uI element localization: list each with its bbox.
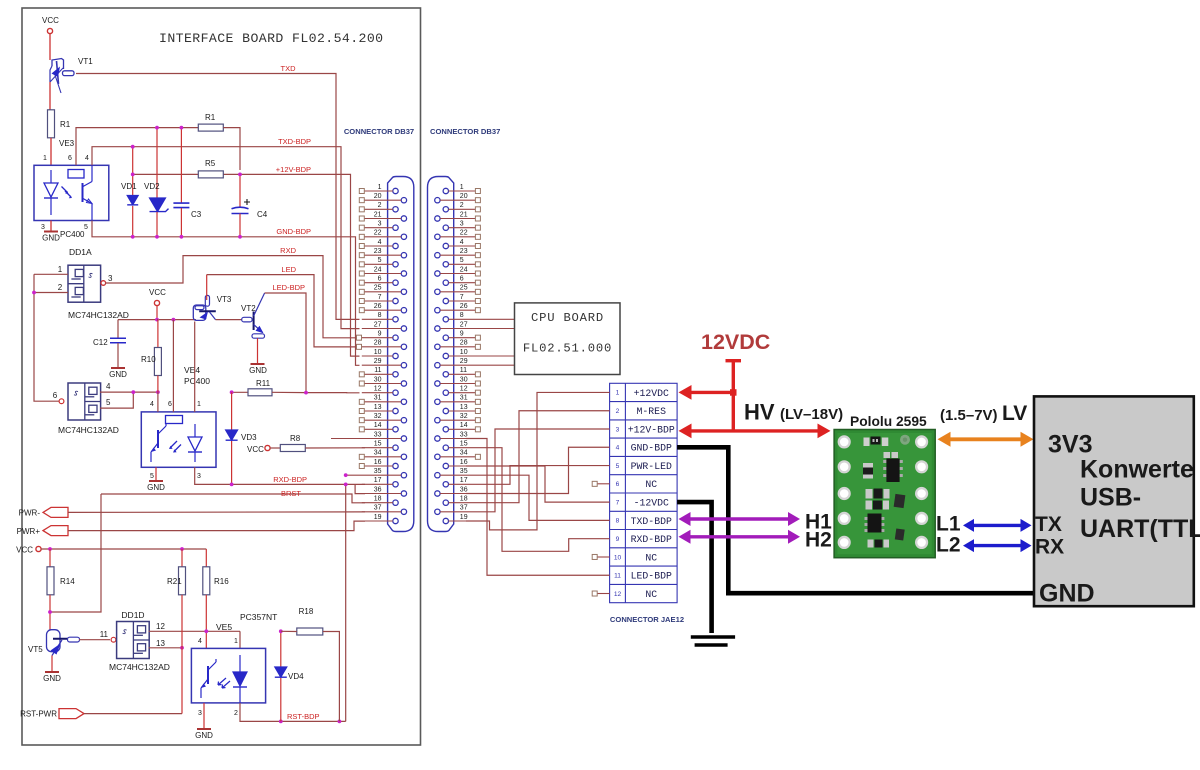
label TXD-BDP xyxy=(278,137,311,146)
svg-text:15: 15 xyxy=(374,440,382,447)
svg-text:19: 19 xyxy=(374,514,382,521)
svg-text:3: 3 xyxy=(616,426,620,433)
junction xyxy=(131,173,135,177)
svg-text:9: 9 xyxy=(616,536,620,543)
svg-text:11: 11 xyxy=(374,367,381,374)
wire VCC to VT1 xyxy=(49,33,51,60)
svg-text:30: 30 xyxy=(374,376,382,383)
svg-text:22: 22 xyxy=(460,230,468,237)
svg-text:R21: R21 xyxy=(167,577,182,586)
svg-text:R16: R16 xyxy=(214,577,229,586)
svg-text:H2: H2 xyxy=(805,529,832,552)
svg-text:PC400: PC400 xyxy=(60,230,85,239)
svg-text:13: 13 xyxy=(460,404,468,411)
svg-text:USB-: USB- xyxy=(1080,484,1141,512)
resistor R10 xyxy=(141,320,161,393)
pin 12 right DB37 xyxy=(443,385,480,395)
svg-text:M-RES: M-RES xyxy=(637,406,667,417)
wire BRST net xyxy=(101,494,365,503)
junction xyxy=(131,390,135,394)
svg-text:35: 35 xyxy=(374,468,382,475)
label UART(TTL xyxy=(1080,515,1200,543)
label DD1D xyxy=(121,610,144,620)
label CONNECTOR DB37 (left) xyxy=(344,127,414,136)
pin 22 left DB37 xyxy=(359,230,406,240)
svg-text:6: 6 xyxy=(460,275,464,282)
node VCC (bottom) xyxy=(16,546,41,555)
svg-text:32: 32 xyxy=(460,413,468,420)
svg-text:36: 36 xyxy=(460,486,468,493)
svg-text:11: 11 xyxy=(100,630,109,639)
svg-text:GND: GND xyxy=(195,731,213,740)
svg-text:1: 1 xyxy=(58,265,63,274)
wire JAE12 pin 3 to DB37 pin 37 xyxy=(466,429,610,512)
wire JAE12 pin 4 to DB37 pin 36 xyxy=(466,447,610,493)
svg-text:INTERFACE BOARD FL02.54.200: INTERFACE BOARD FL02.54.200 xyxy=(159,31,383,46)
resistor R1 (horizontal top) xyxy=(198,113,223,131)
svg-text:11: 11 xyxy=(460,367,467,374)
svg-text:PWR+: PWR+ xyxy=(17,527,41,536)
label GND xyxy=(1039,580,1095,608)
svg-text:1: 1 xyxy=(378,184,382,191)
pin 2 left DB37 xyxy=(359,202,398,212)
pin 6 DD1B xyxy=(53,391,58,400)
svg-text:3: 3 xyxy=(108,274,113,283)
wire 12VDC supply xyxy=(726,361,742,431)
resistor R14 xyxy=(47,549,75,630)
svg-text:18: 18 xyxy=(374,495,382,502)
pin 3 VE4 xyxy=(197,473,201,480)
svg-text:-12VDC: -12VDC xyxy=(634,498,669,509)
svg-text:8: 8 xyxy=(378,312,382,319)
wire VE4 pin6 to VCC rail xyxy=(172,320,174,412)
wire JAE12 pin 11 to DB37 pin 33 xyxy=(466,439,610,576)
pin 14 left DB37 xyxy=(359,422,398,432)
pin 13 DD1D xyxy=(156,639,165,648)
transistor VT3 xyxy=(193,295,232,320)
label BRST xyxy=(281,489,301,498)
svg-text:VD2: VD2 xyxy=(144,182,160,191)
label (1.5-7V) xyxy=(940,407,998,424)
wire pin12 line xyxy=(149,630,240,632)
svg-text:MC74HC132AD: MC74HC132AD xyxy=(58,425,119,435)
svg-text:16: 16 xyxy=(374,459,382,466)
svg-text:R1: R1 xyxy=(60,120,71,129)
diode VD2 (zener) xyxy=(144,128,169,237)
svg-text:14: 14 xyxy=(374,422,382,429)
svg-text:37: 37 xyxy=(374,505,382,512)
svg-text:4: 4 xyxy=(106,382,111,391)
pin 16 left DB37 xyxy=(359,459,398,469)
pin 20 left DB37 xyxy=(359,193,406,203)
wire R8 to row15 xyxy=(305,447,365,449)
svg-text:33: 33 xyxy=(374,431,382,438)
svg-text:3: 3 xyxy=(41,224,45,231)
svg-text:+12VDC: +12VDC xyxy=(634,388,669,399)
svg-text:R18: R18 xyxy=(299,607,314,616)
pin 11 DD1D xyxy=(100,630,109,639)
pin 24 left DB37 xyxy=(359,266,406,276)
wire RXD net xyxy=(105,256,357,338)
svg-text:5: 5 xyxy=(106,398,111,407)
wire +12V-BDP net xyxy=(133,173,199,175)
pin 9 JAE12 RXD-BDP xyxy=(616,534,672,545)
arrow HV line to Pololu xyxy=(679,424,831,439)
diode VD4 xyxy=(275,631,304,721)
wire JAE12 pin 7 to DB37 pin 16 xyxy=(466,466,610,502)
pin 21 right DB37 xyxy=(435,211,481,221)
label VE5 xyxy=(216,622,232,632)
wire PWR+ to row19 xyxy=(68,521,365,531)
svg-text:12: 12 xyxy=(156,622,165,631)
label TXD xyxy=(281,64,297,73)
pin 37 right DB37 xyxy=(435,505,468,515)
svg-text:VE4: VE4 xyxy=(184,365,200,375)
node VCC (R8) xyxy=(247,445,270,454)
svg-text:5: 5 xyxy=(84,224,88,231)
pin 17 left DB37 xyxy=(362,477,398,487)
svg-text:20: 20 xyxy=(460,193,468,200)
svg-text:26: 26 xyxy=(460,303,468,310)
pin 21 left DB37 xyxy=(359,211,406,221)
pin 34 right DB37 xyxy=(435,450,481,460)
label RST-BDP xyxy=(287,712,320,721)
pin 6 VE4 xyxy=(168,401,172,408)
label 3V3 xyxy=(1048,431,1092,459)
svg-text:4: 4 xyxy=(616,445,620,452)
svg-text:RX: RX xyxy=(1035,536,1064,559)
svg-text:24: 24 xyxy=(460,266,468,273)
pin 6 right DB37 xyxy=(443,275,480,285)
pin 31 left DB37 xyxy=(359,395,406,405)
svg-text:GND-BDP: GND-BDP xyxy=(631,443,672,454)
resistor R8 xyxy=(270,434,305,452)
pin 3 DD1A xyxy=(108,274,113,283)
arrow +12VDC to JAE pin1 xyxy=(679,385,734,400)
label +12V-BDP xyxy=(276,165,311,174)
junction xyxy=(238,173,242,177)
svg-text:3: 3 xyxy=(198,710,202,717)
pin 24 right DB37 xyxy=(435,266,481,276)
pin 9 left DB37 xyxy=(357,330,399,340)
svg-text:VCC: VCC xyxy=(42,16,59,25)
svg-text:VE5: VE5 xyxy=(216,622,232,632)
svg-text:R14: R14 xyxy=(60,577,75,586)
junction xyxy=(230,483,234,487)
junction xyxy=(238,235,242,239)
svg-text:NC: NC xyxy=(645,479,657,490)
svg-text:GND: GND xyxy=(109,370,127,379)
svg-text:3: 3 xyxy=(378,220,382,227)
pin 7 left DB37 xyxy=(359,294,398,304)
capacitor C3 xyxy=(173,128,201,237)
svg-text:LED-BDP: LED-BDP xyxy=(272,283,305,292)
pin 5 DD1B xyxy=(106,398,111,407)
label Pololu 2595 xyxy=(850,414,927,429)
pin 5 VE3 xyxy=(84,224,88,231)
pin 18 left DB37 xyxy=(362,495,398,505)
pin 28 left DB37 xyxy=(357,340,407,350)
svg-text:6: 6 xyxy=(53,391,58,400)
svg-text:15: 15 xyxy=(460,440,468,447)
ground GND (VT2) xyxy=(249,364,267,375)
svg-text:5: 5 xyxy=(616,463,620,470)
svg-text:26: 26 xyxy=(374,303,382,310)
svg-text:1: 1 xyxy=(197,401,201,408)
svg-text:R1: R1 xyxy=(205,113,216,122)
svg-text:8: 8 xyxy=(460,312,464,319)
svg-text:3V3: 3V3 xyxy=(1048,431,1092,459)
junction row35 riser xyxy=(344,473,348,477)
svg-text:25: 25 xyxy=(374,285,382,292)
pin 10 right DB37 xyxy=(443,349,514,359)
svg-text:5: 5 xyxy=(378,257,382,264)
optocoupler VE3 PC400 xyxy=(34,139,109,239)
svg-text:GND: GND xyxy=(42,234,60,243)
pin 3 JAE12 +12V-BDP xyxy=(616,424,675,435)
pin 6 VE3 xyxy=(68,155,72,162)
pin 25 right DB37 xyxy=(435,285,481,295)
svg-text:RXD-BDP: RXD-BDP xyxy=(273,475,307,484)
wire GND-BDP thick black xyxy=(677,447,1034,593)
wire -12VDC thick black xyxy=(677,502,712,633)
connector DB37 left body xyxy=(388,177,414,532)
svg-text:RXD-BDP: RXD-BDP xyxy=(631,534,672,545)
wire VE3 pin3 to GND xyxy=(50,221,52,232)
pin 1 right DB37 xyxy=(443,184,480,194)
svg-text:2: 2 xyxy=(460,202,464,209)
svg-text:VCC: VCC xyxy=(149,288,166,297)
wire JAE12 pin 5 to DB37 pin 17 xyxy=(466,466,610,485)
pin 19 left DB37 xyxy=(362,514,398,524)
wire pin13 line xyxy=(149,647,182,649)
wire VE5 pin3 to GND xyxy=(203,703,205,728)
pin 5 left DB37 xyxy=(359,257,398,267)
pin 1 left DB37 xyxy=(359,184,398,194)
junction xyxy=(155,318,159,322)
pin 4 left DB37 xyxy=(359,239,398,249)
pin 10 left DB37 xyxy=(362,349,398,359)
pin 37 left DB37 xyxy=(362,505,407,515)
svg-text:VD4: VD4 xyxy=(288,672,304,681)
pin 4 VE3 xyxy=(85,155,89,162)
wire R1 to VE3 pin1 xyxy=(50,138,52,166)
pin 4 right DB37 xyxy=(443,239,480,249)
svg-text:TXD: TXD xyxy=(281,64,297,73)
svg-text:LED-BDP: LED-BDP xyxy=(631,571,672,582)
wire RST-PWR to R21 xyxy=(84,713,182,715)
wire LED-BDP net xyxy=(265,293,360,393)
resistor R16 xyxy=(203,549,229,648)
svg-text:8: 8 xyxy=(616,518,620,525)
gate DD1A MC74HC132AD xyxy=(68,265,101,302)
arrow H1 (TXD-BDP) xyxy=(679,512,801,526)
pin 26 left DB37 xyxy=(359,303,406,313)
Pololu 2595 level shifter board xyxy=(834,430,935,558)
label RX xyxy=(1035,536,1064,559)
svg-text:4: 4 xyxy=(85,155,89,162)
svg-text:R8: R8 xyxy=(290,434,301,443)
svg-text:13: 13 xyxy=(374,404,382,411)
svg-text:35: 35 xyxy=(460,468,468,475)
svg-text:11: 11 xyxy=(614,573,621,580)
svg-text:TX: TX xyxy=(1035,513,1062,536)
svg-text:36: 36 xyxy=(374,486,382,493)
pin 9 right DB37 xyxy=(443,330,480,340)
pin 32 left DB37 xyxy=(359,413,406,423)
label MC74HC132AD (DD1A) xyxy=(68,310,129,320)
svg-text:34: 34 xyxy=(460,450,468,457)
svg-text:R10: R10 xyxy=(141,355,156,364)
USB-UART converter box xyxy=(1034,396,1194,606)
svg-text:30: 30 xyxy=(460,376,468,383)
wire GND-BDP bottom bus xyxy=(92,221,360,366)
svg-text:+12V-BDP: +12V-BDP xyxy=(276,165,311,174)
pin 3 VE5 xyxy=(198,710,202,717)
svg-text:RST-BDP: RST-BDP xyxy=(287,712,320,721)
svg-text:GND: GND xyxy=(43,674,61,683)
wire DD1B pin5 jog xyxy=(100,392,133,408)
pin 2 DD1A xyxy=(58,283,63,292)
svg-text:10: 10 xyxy=(460,349,468,356)
svg-text:9: 9 xyxy=(460,330,464,337)
svg-text:RST-PWR: RST-PWR xyxy=(20,710,57,719)
junction xyxy=(48,547,52,551)
label LED-BDP xyxy=(272,283,305,292)
wire DD1A-DD1B left vertical xyxy=(34,274,59,401)
junction xyxy=(131,145,135,149)
svg-text:L2: L2 xyxy=(936,534,961,557)
NC stub pin 12 xyxy=(592,591,609,596)
svg-text:L1: L1 xyxy=(936,513,961,536)
svg-text:1: 1 xyxy=(616,390,620,397)
svg-text:28: 28 xyxy=(374,340,382,347)
wire VE5 pin1 xyxy=(239,631,241,648)
pin 5 VE4 xyxy=(150,473,154,480)
svg-text:CPU BOARD: CPU BOARD xyxy=(531,311,604,325)
svg-text:MC74HC132AD: MC74HC132AD xyxy=(68,310,129,320)
pin 30 right DB37 xyxy=(435,376,481,386)
pin 1 VE5 xyxy=(234,638,238,645)
svg-text:1: 1 xyxy=(460,184,464,191)
svg-text:31: 31 xyxy=(460,395,468,402)
label LED xyxy=(281,265,296,274)
svg-text:4: 4 xyxy=(378,239,382,246)
wire VT3 emitter to VT2 base xyxy=(216,319,242,321)
label HV xyxy=(744,400,775,425)
svg-text:10: 10 xyxy=(614,554,622,561)
wire row36 jog xyxy=(355,484,365,493)
pin 35 right DB37 xyxy=(435,468,468,478)
svg-text:2: 2 xyxy=(616,408,620,415)
svg-text:VD1: VD1 xyxy=(121,182,137,191)
junction xyxy=(338,720,342,724)
pin 32 right DB37 xyxy=(435,413,481,423)
wire JAE12 pin 9 to DB37 pin 15 xyxy=(466,448,610,552)
capacitor C4 (electrolytic) xyxy=(232,174,268,236)
svg-text:17: 17 xyxy=(374,477,382,484)
pin 23 left DB37 xyxy=(359,248,406,258)
optocoupler VE5 PC357NT xyxy=(191,612,277,703)
label H2 xyxy=(805,529,832,552)
svg-text:FL02.51.000: FL02.51.000 xyxy=(523,342,612,356)
ground GND (C12) xyxy=(109,368,127,379)
label CONNECTOR DB37 (right) xyxy=(430,127,500,136)
svg-text:21: 21 xyxy=(374,211,382,218)
pin 12 JAE12 NC xyxy=(614,589,657,600)
pin 3 VE3 xyxy=(41,224,45,231)
wire VCC rail xyxy=(156,305,158,320)
junction xyxy=(155,235,159,239)
junction xyxy=(304,391,308,395)
junction xyxy=(32,291,36,295)
junction xyxy=(180,235,184,239)
NC stub pin 6 xyxy=(592,481,609,486)
wire VCC bottom rail xyxy=(41,548,206,550)
svg-text:1: 1 xyxy=(234,638,238,645)
gate DD1D MC74HC132AD xyxy=(117,622,150,659)
junction xyxy=(156,390,160,394)
pin 13 right DB37 xyxy=(443,404,480,414)
transistor VT2 xyxy=(241,293,265,363)
diode VD1 xyxy=(121,147,138,237)
pin 5 right DB37 xyxy=(443,257,480,267)
svg-text:10: 10 xyxy=(374,349,382,356)
output bubble DD1A pin3 xyxy=(101,281,106,286)
label LV xyxy=(1002,402,1027,425)
pin 7 right DB37 xyxy=(443,294,480,304)
svg-text:DD1A: DD1A xyxy=(69,247,92,257)
label USB- xyxy=(1080,484,1141,512)
svg-text:28: 28 xyxy=(460,340,468,347)
label MC74HC132AD (DD1B) xyxy=(58,425,119,435)
pin 15 left DB37 xyxy=(362,440,398,450)
node VCC (rail) xyxy=(149,288,166,306)
svg-text:5: 5 xyxy=(460,257,464,264)
svg-text:22: 22 xyxy=(374,230,382,237)
svg-text:VT3: VT3 xyxy=(217,295,232,304)
svg-text:32: 32 xyxy=(374,413,382,420)
svg-text:7: 7 xyxy=(378,294,382,301)
pin 4 VE5 xyxy=(198,638,202,645)
wire VT5 emitter to GND xyxy=(51,656,53,672)
label L1 xyxy=(936,513,961,536)
svg-text:3: 3 xyxy=(460,220,464,227)
pin 1 VE3 xyxy=(43,155,47,162)
pin 2 JAE12 M-RES xyxy=(616,406,666,417)
CPU board box xyxy=(515,303,621,375)
pin 14 right DB37 xyxy=(443,422,480,432)
resistor R1 (vertical) xyxy=(48,110,71,138)
connector DB37 right body xyxy=(428,177,454,532)
wire RXD-BDP bus xyxy=(195,467,365,484)
label TX xyxy=(1035,513,1062,536)
junction xyxy=(172,318,176,322)
pin 4 JAE12 GND-BDP xyxy=(616,443,672,454)
pin 4 VE4 xyxy=(150,401,154,408)
svg-text:GND-BDP: GND-BDP xyxy=(276,227,311,236)
svg-text:14: 14 xyxy=(460,422,468,429)
pin 2 right DB37 xyxy=(443,202,480,212)
svg-text:9: 9 xyxy=(378,330,382,337)
svg-text:13: 13 xyxy=(156,639,165,648)
svg-text:19: 19 xyxy=(460,514,468,521)
pin 29 right DB37 xyxy=(435,358,515,368)
svg-text:R11: R11 xyxy=(256,379,271,388)
wire DD1B pin4 line xyxy=(100,391,158,393)
resistor R18 xyxy=(281,607,340,721)
svg-text:C4: C4 xyxy=(257,210,268,219)
